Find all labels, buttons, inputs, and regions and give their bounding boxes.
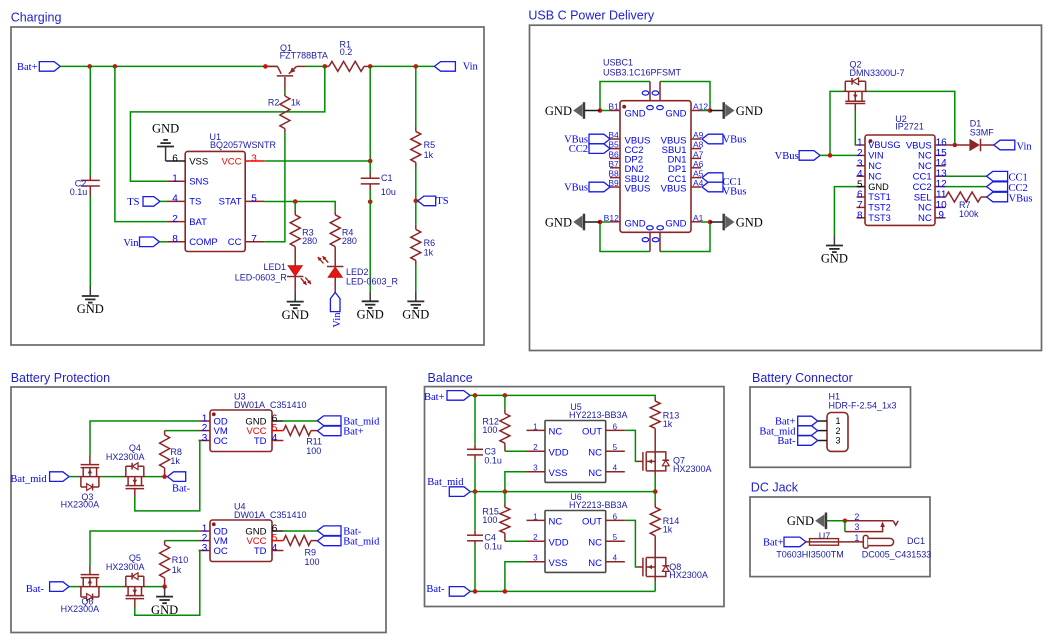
svg-text:TS: TS xyxy=(127,197,139,208)
svg-text:VBus: VBus xyxy=(564,182,588,193)
svg-text:VBus: VBus xyxy=(723,187,747,198)
op-amp U5 HY2213 box xyxy=(545,421,606,483)
net flag Bat_mid right U3 xyxy=(317,416,380,428)
pin 5 GND xyxy=(857,179,890,192)
net flag Bat+ balance xyxy=(424,391,470,403)
svg-text:B1: B1 xyxy=(608,102,619,112)
ground GND below C1 xyxy=(357,291,384,321)
junction dots Bat_mid balance xyxy=(473,489,658,494)
svg-text:SNS: SNS xyxy=(189,177,209,188)
pin 4 NC U6 xyxy=(588,554,625,569)
svg-text:Bat_mid: Bat_mid xyxy=(343,537,380,548)
pin 3 VSS U5 xyxy=(527,464,568,479)
label R12 xyxy=(482,416,499,435)
net flag CC1 xyxy=(987,171,1028,183)
section title Battery Connector xyxy=(752,371,853,385)
wire Q2 gate to VBUSG xyxy=(855,111,856,146)
transistor Q7 xyxy=(637,452,669,471)
svg-text:HX2300A: HX2300A xyxy=(669,570,708,580)
net flag Bat- H1 xyxy=(777,436,817,448)
wire Q8 source down xyxy=(654,577,656,592)
svg-text:280: 280 xyxy=(342,236,357,246)
svg-text:1k: 1k xyxy=(172,565,182,575)
op-amp U6 HY2213 box xyxy=(545,511,606,573)
svg-text:VBUS: VBUS xyxy=(661,183,687,194)
label R9 xyxy=(305,548,320,567)
svg-text:1: 1 xyxy=(854,533,859,543)
pin1 marker dot USBC1 xyxy=(622,105,626,109)
svg-text:NC: NC xyxy=(588,468,602,479)
svg-text:1: 1 xyxy=(836,416,841,426)
svg-text:TST2: TST2 xyxy=(868,203,890,213)
svg-text:8: 8 xyxy=(857,211,863,222)
pin 5 VCC U3 xyxy=(246,423,283,437)
resistor R8 xyxy=(160,431,170,477)
shield stub top left xyxy=(642,82,650,101)
wire Q3 to Q4 xyxy=(101,476,123,478)
svg-text:5: 5 xyxy=(613,443,618,452)
label D1 xyxy=(970,119,995,138)
svg-text:GND: GND xyxy=(625,108,646,119)
capacitor C3 xyxy=(467,395,483,491)
pin 11 SEL xyxy=(914,189,947,203)
svg-text:0.1u: 0.1u xyxy=(70,187,88,197)
svg-text:TST1: TST1 xyxy=(868,192,890,202)
svg-text:GND: GND xyxy=(545,215,572,229)
ground GND below C2 xyxy=(77,286,104,316)
section frame Charging xyxy=(11,27,484,345)
shield stub top right xyxy=(652,82,660,101)
label R15 xyxy=(482,506,499,525)
pin A6 DP1 xyxy=(668,159,704,175)
junction dot A12 xyxy=(708,108,713,113)
capacitor C4 xyxy=(467,492,483,592)
pin 2 H1 xyxy=(818,426,841,436)
section frame Battery Protection xyxy=(11,387,386,633)
svg-text:Balance: Balance xyxy=(428,371,473,385)
pin A4 VBUS xyxy=(661,178,704,194)
label Q6 xyxy=(61,596,100,614)
resistor R11 xyxy=(283,426,317,436)
pin B6 DP2 xyxy=(608,149,643,165)
svg-text:1: 1 xyxy=(172,174,178,185)
resistor R7 xyxy=(946,192,987,202)
svg-text:S3MF: S3MF xyxy=(970,128,995,138)
pin A7 DN1 xyxy=(667,149,703,165)
op-amp U3 DW01A box xyxy=(210,410,272,452)
net flag VBus at SEL xyxy=(987,192,1033,204)
transistor Q4 xyxy=(124,463,147,497)
net flag VBus at A9 xyxy=(702,134,746,146)
pin 6 GND U3 xyxy=(245,413,283,427)
svg-text:VSS: VSS xyxy=(549,468,568,479)
svg-text:VBUSG: VBUSG xyxy=(868,140,900,150)
pin A12 GND xyxy=(665,102,708,120)
svg-text:Bat-: Bat- xyxy=(426,584,445,595)
svg-text:HX2300A: HX2300A xyxy=(106,452,145,462)
label R10 xyxy=(172,555,189,575)
svg-text:Charging: Charging xyxy=(11,10,62,24)
section title Charging xyxy=(11,10,62,24)
svg-text:1: 1 xyxy=(857,138,863,149)
wire shield bottom left xyxy=(600,222,650,252)
svg-text:0.1u: 0.1u xyxy=(484,456,502,466)
svg-text:7: 7 xyxy=(857,200,863,211)
wire GND to jack pin2 xyxy=(827,520,845,522)
svg-text:HX2300A: HX2300A xyxy=(61,500,100,510)
pin 3 DC1 switch xyxy=(845,521,885,532)
junction dot DC jack xyxy=(843,519,848,524)
svg-text:A8: A8 xyxy=(693,140,704,150)
junction dot VBUS-D1 xyxy=(953,143,958,148)
svg-text:GND: GND xyxy=(665,219,686,230)
ground flag GND DC jack xyxy=(787,513,826,530)
pin 4 TS xyxy=(167,194,201,208)
connector H1 body xyxy=(827,413,848,452)
section title USB C Power Delivery xyxy=(528,8,654,22)
ground GND in battery protection xyxy=(151,587,178,617)
pin A5 CC1 xyxy=(667,169,703,185)
section frame USB C Power Delivery xyxy=(530,25,1042,350)
wire VCC pin3 net xyxy=(264,160,370,162)
wire Q2 drain to VBUS out xyxy=(868,91,955,145)
svg-text:Bat-: Bat- xyxy=(26,584,45,595)
svg-text:DW01A_C351410: DW01A_C351410 xyxy=(234,400,307,410)
pin B9 VBUS xyxy=(608,178,650,194)
svg-text:Vin: Vin xyxy=(332,312,343,328)
svg-text:2: 2 xyxy=(854,512,859,522)
pin 3 VSS U6 xyxy=(527,554,568,569)
svg-text:VBus: VBus xyxy=(1009,193,1033,204)
svg-text:4: 4 xyxy=(272,543,278,554)
junction dot VBus-Q2 xyxy=(828,153,833,158)
svg-text:U7: U7 xyxy=(819,531,831,541)
ground GND below U2 xyxy=(821,236,848,266)
svg-text:NC: NC xyxy=(549,517,563,528)
pin 16 VBUS xyxy=(906,137,947,151)
pin1 marker dot U3 xyxy=(212,412,216,416)
wire R5 to TS xyxy=(415,167,417,201)
svg-text:OC: OC xyxy=(214,436,228,447)
pin 1 NC U6 xyxy=(527,512,563,527)
label R5 xyxy=(424,140,436,160)
svg-text:LED-0603_R: LED-0603_R xyxy=(235,272,288,282)
label Q4 xyxy=(106,443,145,462)
section frame Balance xyxy=(425,387,725,607)
net flag Bat+ DC jack xyxy=(763,537,806,549)
LED2 emission arrows xyxy=(318,256,329,263)
svg-text:2: 2 xyxy=(533,533,538,542)
svg-text:VDD: VDD xyxy=(549,448,569,459)
svg-text:GND: GND xyxy=(151,603,178,617)
svg-text:1: 1 xyxy=(533,512,538,521)
wire GND pin5 xyxy=(834,187,856,236)
svg-text:12: 12 xyxy=(936,179,948,190)
wire Q2 source to VBus xyxy=(830,91,843,155)
LED LED2 xyxy=(327,267,343,293)
pin 7 CC xyxy=(228,234,265,248)
svg-text:HX2300A: HX2300A xyxy=(673,464,712,474)
svg-text:11: 11 xyxy=(936,189,947,200)
section frame DC Jack xyxy=(750,497,930,577)
svg-text:NC: NC xyxy=(918,213,932,224)
pin 15 NC xyxy=(918,148,947,162)
svg-text:100: 100 xyxy=(482,515,497,525)
svg-text:TST3: TST3 xyxy=(868,213,890,223)
pin 3 VCC xyxy=(221,153,264,167)
svg-text:2: 2 xyxy=(533,443,538,452)
wire R6 to GND xyxy=(415,265,417,291)
resistor R15 xyxy=(500,492,510,542)
label U6 xyxy=(569,492,628,510)
resistor R10 xyxy=(160,541,170,587)
svg-text:1k: 1k xyxy=(170,456,180,466)
svg-text:3: 3 xyxy=(251,153,257,164)
pin 5 VCC U4 xyxy=(246,533,283,547)
pin A9 VBUS xyxy=(661,130,704,146)
svg-text:HX2300A: HX2300A xyxy=(61,604,100,614)
svg-text:100: 100 xyxy=(482,425,497,435)
svg-text:100: 100 xyxy=(306,446,321,456)
pin 4 TD U4 xyxy=(254,543,284,557)
pin 2 BAT xyxy=(167,214,207,228)
svg-text:NC: NC xyxy=(588,538,602,549)
wire CC1 xyxy=(946,175,987,177)
junction dots Bat- balance xyxy=(473,589,508,594)
wire shield top right xyxy=(660,82,710,111)
ground flag GND at A1 xyxy=(710,214,763,231)
svg-text:USB C Power Delivery: USB C Power Delivery xyxy=(528,8,654,22)
svg-text:1: 1 xyxy=(533,422,538,431)
junction dots Bat+ balance xyxy=(473,393,508,398)
pin 2 DC1 line xyxy=(845,512,898,525)
wire U5 VSS down xyxy=(505,472,527,492)
junction dots on Bat+ rail xyxy=(87,64,418,69)
diode D1 xyxy=(946,139,994,152)
svg-text:A6: A6 xyxy=(693,159,704,169)
label R13 xyxy=(663,411,680,430)
net flag Vin right xyxy=(994,140,1033,152)
wire U6 OUT to Q8 gate xyxy=(625,520,637,567)
svg-text:4: 4 xyxy=(613,464,618,473)
svg-text:DMN3300U-7: DMN3300U-7 xyxy=(850,68,905,78)
label C2 xyxy=(70,178,88,197)
pin 1 VBUSG xyxy=(857,138,901,151)
label DC005_C431533 xyxy=(862,550,932,560)
svg-text:1k: 1k xyxy=(291,98,301,108)
svg-text:GND: GND xyxy=(787,514,814,528)
label H1 xyxy=(829,392,897,411)
pin 4 TD U3 xyxy=(254,433,284,447)
wire Bat_mid rail balance xyxy=(470,491,655,493)
svg-text:DW01A_C351410: DW01A_C351410 xyxy=(234,510,307,520)
svg-text:BQ2057WSNTR: BQ2057WSNTR xyxy=(210,140,277,150)
net flag TS mid xyxy=(418,196,449,207)
svg-text:16: 16 xyxy=(936,137,948,148)
svg-text:B7: B7 xyxy=(608,159,619,169)
pin 9 NC xyxy=(918,210,946,224)
op-amp U4 DW01A box xyxy=(210,520,272,562)
svg-text:8: 8 xyxy=(172,234,178,245)
svg-text:NC: NC xyxy=(588,448,602,459)
pin A8 SBU1 xyxy=(662,140,704,156)
resistor R6 xyxy=(411,201,421,265)
net flag Bat- left xyxy=(26,582,69,595)
LED1 emission arrows xyxy=(301,277,311,284)
label R3 xyxy=(302,228,317,247)
svg-text:CC2: CC2 xyxy=(1009,183,1028,194)
resistor R5 xyxy=(411,127,421,167)
svg-text:Battery Protection: Battery Protection xyxy=(11,371,110,385)
junction dot STAT-R3 xyxy=(293,199,298,204)
DC jack DC1 barrel xyxy=(854,533,893,548)
pin 3 OC U4 xyxy=(199,543,228,557)
svg-text:0.1u: 0.1u xyxy=(484,541,502,551)
transistor Q5 xyxy=(124,573,147,607)
pin 6 TST1 xyxy=(857,190,891,203)
svg-text:NC: NC xyxy=(868,171,882,181)
junction dot C1 bottom xyxy=(368,200,373,205)
net flag VBus at B9 xyxy=(564,182,610,193)
net flag Vin below LED2 xyxy=(330,292,342,327)
wire Q4 to Bat- node xyxy=(146,476,165,478)
pin 12 CC2 xyxy=(913,179,948,193)
pin 7 TST2 xyxy=(857,200,891,213)
resistor R2 xyxy=(280,90,290,132)
svg-text:Bat_mid: Bat_mid xyxy=(427,477,464,488)
pin1 marker dot U2 xyxy=(869,139,873,143)
svg-text:NC: NC xyxy=(549,427,563,438)
svg-text:VSS: VSS xyxy=(549,558,568,569)
label Q5 xyxy=(106,553,145,572)
wire VCC branch down xyxy=(369,66,371,160)
svg-text:USB3.1C16PFSMT: USB3.1C16PFSMT xyxy=(603,68,682,78)
wire R15 to VDD xyxy=(505,540,527,542)
svg-text:Vin: Vin xyxy=(463,62,479,73)
svg-text:A1: A1 xyxy=(693,213,704,223)
svg-text:NC: NC xyxy=(588,558,602,569)
net flag Bat- right U4 xyxy=(317,526,361,538)
svg-text:3: 3 xyxy=(202,433,208,444)
svg-text:LED-0603_R: LED-0603_R xyxy=(346,277,399,287)
shield inner ellipses xyxy=(647,106,664,230)
svg-text:6: 6 xyxy=(172,153,178,164)
svg-text:1k: 1k xyxy=(424,248,434,258)
wire Bat+ rail xyxy=(60,65,277,67)
svg-text:2: 2 xyxy=(172,214,178,225)
pin 5 NC U5 xyxy=(588,443,625,458)
svg-text:B12: B12 xyxy=(604,213,619,223)
svg-text:2: 2 xyxy=(836,426,841,436)
net flag Bat_mid right U4 xyxy=(317,536,380,548)
wire shield top left xyxy=(600,82,650,111)
svg-text:Bat+: Bat+ xyxy=(343,427,364,438)
svg-text:13: 13 xyxy=(936,169,948,180)
svg-text:T0603HI3500TM: T0603HI3500TM xyxy=(776,550,844,560)
svg-text:2: 2 xyxy=(857,148,863,159)
resistor R13 xyxy=(650,398,660,452)
wire Bat- to Q6 xyxy=(69,586,79,588)
svg-text:7: 7 xyxy=(251,234,257,245)
resistor R14 xyxy=(650,492,660,558)
section title Battery Protection xyxy=(11,371,110,385)
svg-text:100: 100 xyxy=(305,557,320,567)
net flag Bat_mid balance xyxy=(427,477,470,496)
net flag Vin at pin8 xyxy=(123,237,167,249)
wire R12 to VDD xyxy=(505,450,527,452)
svg-text:VBus: VBus xyxy=(775,151,799,162)
wire C2 branch xyxy=(89,66,91,286)
svg-text:R2: R2 xyxy=(268,98,280,108)
svg-text:FZT788BTA: FZT788BTA xyxy=(280,51,328,61)
label U4 xyxy=(234,501,307,520)
label R2 xyxy=(268,98,301,108)
pin 2 VDD U6 xyxy=(527,533,569,548)
svg-text:VSS: VSS xyxy=(189,156,208,167)
resistor R1 xyxy=(325,61,370,71)
wire R1 to Vin xyxy=(370,65,434,67)
net flag VBus at U2 xyxy=(775,151,820,162)
svg-text:NC: NC xyxy=(918,203,932,214)
ground GND at VSS xyxy=(152,121,179,161)
svg-text:GND: GND xyxy=(868,182,889,192)
transistor Q8 xyxy=(637,558,669,577)
svg-text:VCC: VCC xyxy=(221,156,241,167)
label U2 xyxy=(895,114,924,132)
svg-text:3: 3 xyxy=(533,554,538,563)
pin 2 VM U3 xyxy=(199,423,228,437)
op-amp U2 IP2721 box xyxy=(865,135,935,225)
wire U5 OUT to Q7 gate xyxy=(625,430,637,461)
svg-text:4: 4 xyxy=(172,194,178,205)
svg-text:GND: GND xyxy=(665,108,686,119)
pin 3 NC xyxy=(857,159,882,172)
svg-text:3: 3 xyxy=(202,543,208,554)
ground flag GND at A12 xyxy=(710,102,763,119)
pin1 marker dot U4 xyxy=(212,522,216,526)
svg-text:5: 5 xyxy=(251,194,257,205)
svg-text:NC: NC xyxy=(868,161,882,171)
svg-text:A12: A12 xyxy=(693,102,708,112)
svg-text:Bat_mid: Bat_mid xyxy=(10,474,47,485)
svg-text:CC1: CC1 xyxy=(1009,173,1028,184)
svg-text:5: 5 xyxy=(613,533,618,542)
svg-text:5: 5 xyxy=(857,179,863,190)
svg-text:1k: 1k xyxy=(663,419,673,429)
svg-text:Bat+: Bat+ xyxy=(17,62,38,73)
junction dot TS xyxy=(414,199,419,204)
svg-text:4: 4 xyxy=(857,169,863,180)
junction dot GND node xyxy=(162,584,167,589)
label R14 xyxy=(663,516,680,535)
svg-text:6: 6 xyxy=(857,190,863,201)
label R6 xyxy=(424,238,436,258)
wire GND pin6 to Bat_mid flag xyxy=(283,420,317,422)
svg-text:R10: R10 xyxy=(172,555,189,565)
net flag CC2 at B5 xyxy=(569,144,610,155)
wire CC2 xyxy=(946,186,987,188)
svg-text:Bat+: Bat+ xyxy=(424,392,445,403)
svg-text:SEL: SEL xyxy=(914,192,932,203)
transistor Q1 xyxy=(265,66,305,90)
svg-text:R6: R6 xyxy=(424,238,436,248)
svg-text:GND: GND xyxy=(357,308,384,322)
pin 3 H1 xyxy=(818,436,841,446)
wire VBus to VIN pin xyxy=(820,154,856,156)
pin 2 VIN xyxy=(857,148,884,161)
svg-text:GND: GND xyxy=(625,219,646,230)
svg-text:14: 14 xyxy=(936,158,948,169)
